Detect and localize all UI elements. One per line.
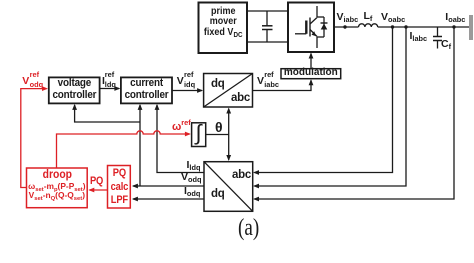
node Voabc [391, 25, 394, 28]
wire PQ to droop [90, 189, 108, 191]
wire dc bottom [247, 41, 288, 43]
arrow Ildq into current controller [155, 104, 160, 110]
label current controller text [123, 77, 169, 101]
arrow into current controller [114, 86, 120, 91]
arrow theta down into abc-dq [226, 155, 231, 161]
label Viabc-ref [257, 76, 264, 87]
node Ilabc [404, 25, 407, 28]
label Ildq-ref [102, 76, 105, 87]
label droop eq1 [27, 182, 88, 190]
wire theta [206, 134, 229, 136]
label droop text [30, 170, 85, 182]
wire Vodq line [133, 185, 204, 187]
wire VC to CC [100, 88, 119, 90]
label Vodq [181, 172, 201, 183]
voltage controller box [49, 77, 100, 103]
label Vodq-ref [22, 76, 29, 87]
arrow into inverter [309, 53, 314, 59]
inverter box U1 [288, 3, 334, 53]
wire Ildq feedback [157, 105, 204, 173]
transistor Q1 IGBT with diode [295, 6, 328, 48]
label voltage controller text [51, 77, 97, 101]
arrow into dq-abc block [197, 88, 203, 93]
arrow into voltage controller [72, 104, 77, 110]
arrow Iodq into PQ calc [132, 197, 138, 202]
label Iodq [184, 186, 200, 197]
prime mover box [199, 3, 248, 54]
wire Vodq feedback vertical [139, 105, 141, 186]
arrow Vodq into current controller [138, 104, 143, 110]
droop box [27, 168, 88, 208]
label Voabc [381, 12, 405, 23]
arrow into modulation [309, 79, 314, 85]
label PQ [90, 176, 103, 187]
label dq top block [211, 79, 224, 91]
node Viabc [343, 25, 346, 28]
wire Vodq-ref red path [21, 89, 47, 188]
wire Viabc-ref to modulation [253, 80, 312, 90]
arrow theta up into dq-abc [226, 108, 231, 114]
wire Voabc sense [255, 27, 393, 173]
wire modulation to inverter [310, 54, 312, 69]
label Cf [441, 39, 451, 50]
grid bus bar [469, 15, 473, 40]
node Ioabc [452, 25, 455, 28]
label abc bottom block [232, 170, 251, 182]
inductor Lf [359, 24, 378, 27]
dq-abc transform box [204, 74, 253, 108]
label Vidq-ref [177, 76, 184, 87]
label PQ calc LPF text [109, 167, 128, 208]
label Ioabc [445, 12, 465, 23]
wire Iodq line [133, 198, 204, 200]
PQ calc LPF box [108, 166, 131, 209]
wire Ioabc sense [255, 27, 455, 199]
wire Vodq feedback to voltage controller [75, 105, 140, 122]
integrator box [192, 123, 206, 147]
arrow into abc-dq top input [253, 170, 259, 175]
label prime mover text [201, 7, 245, 39]
label caption a [238, 216, 259, 241]
label Lf [364, 11, 373, 22]
capacitor Cf [433, 27, 442, 49]
abc-dq transform box [204, 162, 253, 212]
label Ildq [187, 160, 201, 171]
label integrator sign [196, 122, 202, 144]
wire theta vertical [228, 109, 230, 160]
wire Ilabc sense [255, 27, 407, 186]
wire dc top [247, 10, 288, 12]
label theta [215, 120, 223, 134]
capacitor Cdc [262, 11, 273, 42]
label droop eq2 [27, 191, 88, 199]
wire omega red path with hops [57, 131, 190, 168]
modulation box [281, 69, 341, 79]
arrow PQ into droop [88, 188, 94, 193]
arrow Vodq-ref into voltage controller [42, 86, 48, 91]
label dq bottom block [211, 189, 224, 201]
arrow into abc-dq mid input [253, 184, 259, 189]
label Ilabc [410, 31, 428, 42]
label abc top block [231, 93, 250, 105]
arrow omega into integrator [185, 132, 191, 137]
label modulation text [281, 68, 341, 78]
label Viabc [337, 12, 359, 23]
label omega-ref [172, 122, 191, 133]
wire ac to bus [378, 26, 469, 28]
wire CC to dq-abc [172, 90, 202, 92]
wire ac output [334, 26, 359, 28]
arrow Vodq into PQ calc [132, 184, 138, 189]
arrow into abc-dq bottom input [253, 197, 259, 202]
current controller box [121, 77, 172, 103]
